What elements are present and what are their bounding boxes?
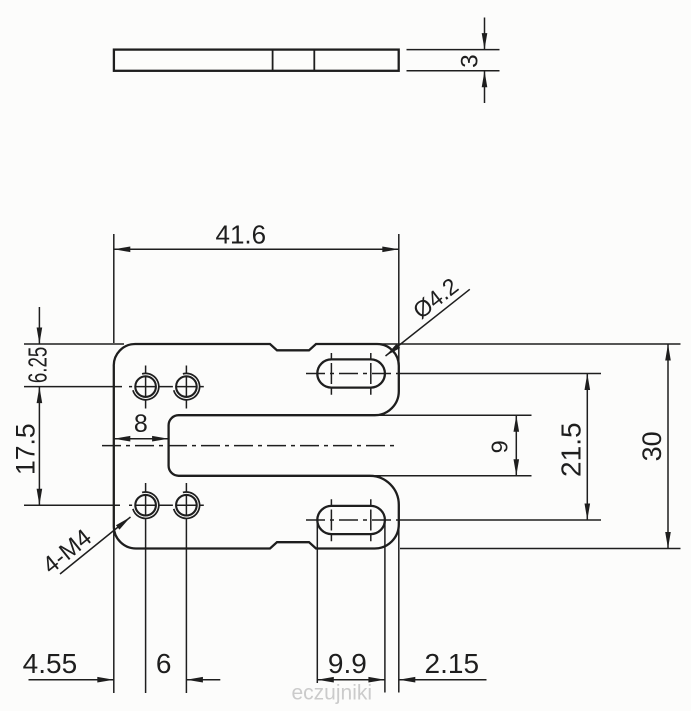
dimension 2.15 line: [399, 679, 487, 681]
obround slot bottom (9.9 x 4.2): [317, 506, 385, 534]
dimension 41.6 line: [114, 248, 399, 250]
obround cap center marks top slot: [331, 353, 370, 395]
dimension 2.15 extension line: [398, 528, 400, 693]
dimension 41.6 extension lines: [114, 234, 399, 364]
dimension 9.9 extension lines: [317, 523, 385, 693]
dimension 21.5 line: [586, 374, 588, 521]
tapped hole M4 top-left: [133, 373, 159, 399]
svg-text:6: 6: [156, 648, 172, 679]
hole crosshair verticals row 2 extended as extension lines for dims 4.55 and 6: [146, 483, 187, 693]
svg-text:9: 9: [487, 440, 513, 453]
top view plate profile (side view rectangle): [114, 50, 399, 71]
dimension 9.9 line: [317, 679, 385, 681]
leader arrowhead 4.2: [386, 344, 401, 356]
obround cap center marks bottom slot: [331, 499, 370, 541]
main bracket outline: [114, 344, 399, 549]
tapped hole M4 top-right: [174, 373, 200, 399]
svg-text:eczujniki: eczujniki: [292, 682, 373, 705]
dimension 8 line: [114, 438, 169, 440]
dimension 41.6 arrowheads: [114, 247, 399, 253]
top obround centerline: [306, 373, 601, 375]
dimension 4.55 line: [29, 679, 114, 681]
hole crosshair verticals row 1: [146, 366, 187, 409]
dimension 8 arrowheads: [114, 436, 169, 442]
dimension 30 line: [667, 344, 669, 549]
svg-text:6.25: 6.25: [22, 347, 52, 383]
svg-text:17.5: 17.5: [10, 423, 40, 475]
dimension 9.9 arrowheads: [317, 677, 385, 683]
svg-text:3: 3: [457, 54, 484, 68]
svg-text:21.5: 21.5: [556, 422, 587, 477]
svg-text:41.6: 41.6: [215, 219, 266, 249]
main horizontal centerline: [102, 445, 399, 447]
dimension 17.5 line and arrows: [38, 387, 40, 506]
hole crosshair horizontal row 1: [129, 386, 204, 388]
top view notch division line right: [313, 50, 315, 71]
dimension 9 extension lines: [374, 415, 532, 476]
dimension 30 arrowheads: [665, 344, 671, 549]
bottom obround centerline: [306, 519, 601, 521]
dimension 3 arrowheads: [482, 33, 488, 87]
svg-text:4.55: 4.55: [23, 648, 78, 679]
dimension 2.15 arrowhead: [399, 677, 416, 683]
svg-text:2.15: 2.15: [425, 648, 480, 679]
dimension 9 arrowheads: [514, 415, 520, 476]
leader line for thread callout 4-M4: [60, 517, 131, 574]
svg-text:30: 30: [637, 431, 667, 461]
dimension 4.55 extension line (plate left edge extended): [113, 530, 115, 693]
hole crosshair horizontal row 2: [129, 504, 204, 506]
dimension 6.25 line and arrows: [38, 307, 40, 344]
dimension 6 arrowhead: [186, 677, 203, 683]
dimension 3 (plate thickness) extension lines: [407, 18, 500, 104]
obround slot top (9.9 x 4.2): [317, 359, 385, 387]
svg-text:9.9: 9.9: [328, 648, 367, 679]
tapped hole M4 bottom-left: [133, 492, 159, 518]
dimension 21.5 arrowheads: [585, 374, 591, 521]
leader line for hole callout 4.2: [386, 289, 470, 356]
top view notch division line left: [272, 50, 274, 71]
leader arrowhead 4-M4: [116, 517, 131, 530]
tapped hole M4 bottom-right: [174, 492, 200, 518]
dimension 4.55 arrowhead: [97, 677, 114, 683]
svg-text:4-M4: 4-M4: [38, 524, 97, 579]
dimension 6.25 / 17.5 shared extension lines: [24, 344, 124, 505]
dimension 9 line: [515, 415, 517, 476]
svg-text:8: 8: [134, 410, 148, 438]
dimension 30 extension lines: [378, 344, 681, 549]
dimension 6 line: [186, 679, 220, 681]
